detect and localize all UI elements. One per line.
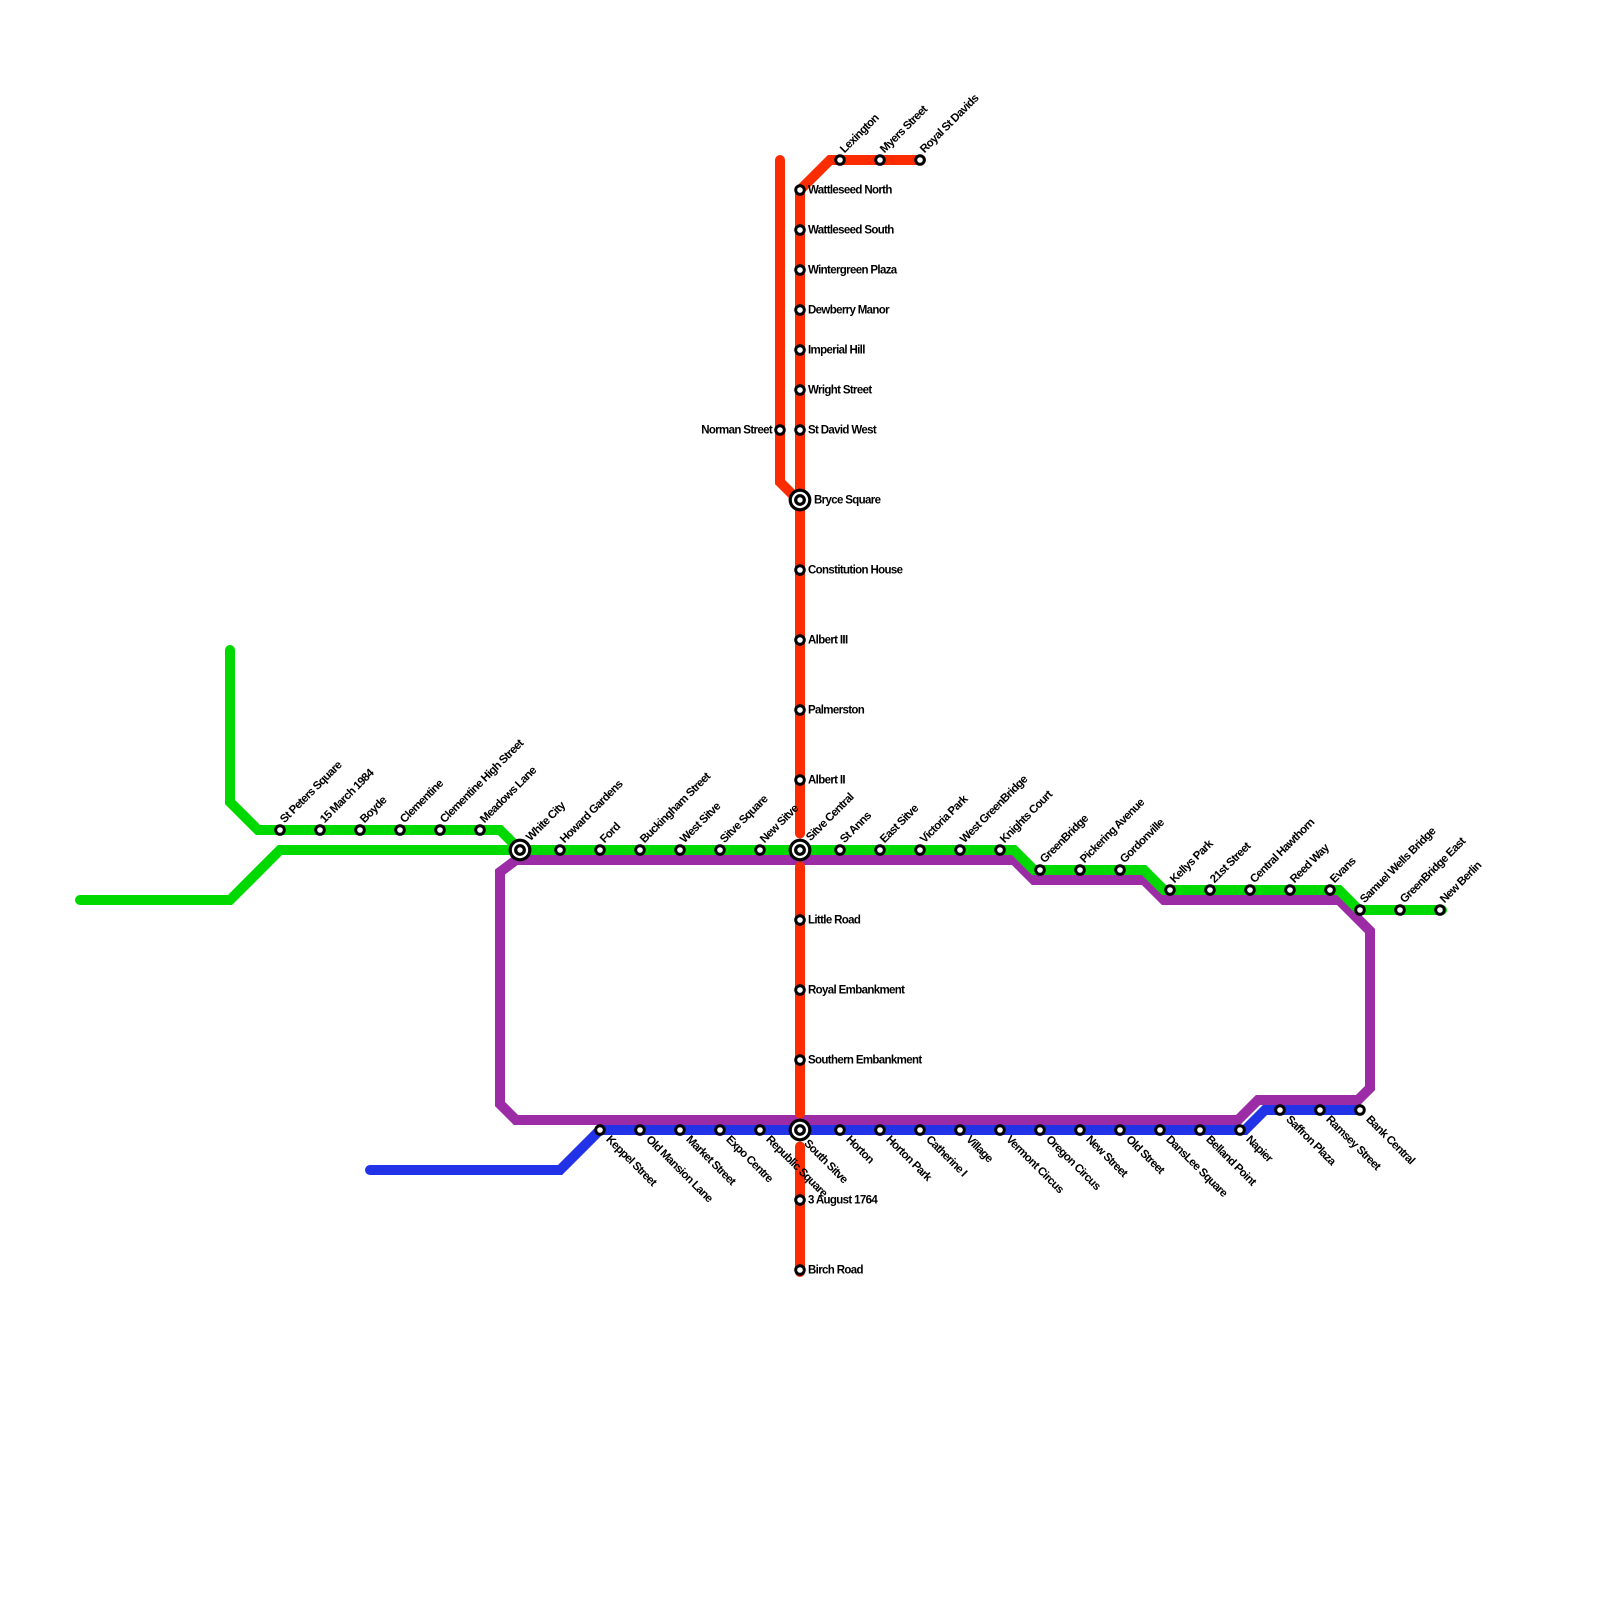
station Dewberry Manor: [794, 304, 890, 316]
station South Sitve: [789, 1119, 850, 1186]
station Market Street: [674, 1124, 738, 1188]
station Imperial Hill: [794, 344, 865, 356]
station Gordonville: [1114, 817, 1167, 876]
svg-text:Wattleseed North: Wattleseed North: [808, 185, 892, 197]
station New Berlin: [1434, 859, 1484, 915]
station New Sitve: [754, 803, 801, 856]
blue line: [370, 1110, 1360, 1170]
station Old Mansion Lane: [634, 1124, 714, 1205]
svg-text:Albert III: Albert III: [808, 635, 848, 647]
red line: main trunk south segment: [795, 1147, 805, 1273]
station Constitution House: [794, 564, 902, 576]
svg-text:Wright Street: Wright Street: [808, 385, 872, 397]
station Napier: [1234, 1124, 1275, 1165]
station Meadows Lane: [474, 765, 539, 836]
station 21st Street: [1204, 840, 1253, 896]
station GreenBridge East: [1394, 835, 1468, 916]
red line: main trunk middle segment: [795, 867, 805, 1114]
svg-text:Palmerston: Palmerston: [808, 705, 865, 717]
station West Sitve: [674, 801, 723, 856]
svg-text:Little Road: Little Road: [808, 915, 861, 927]
svg-text:Imperial Hill: Imperial Hill: [808, 345, 865, 357]
station Bank Central: [1354, 1104, 1417, 1167]
station Old Street: [1114, 1124, 1166, 1177]
station Samuel Wells Bridge: [1354, 825, 1438, 915]
purple circle line loop: [500, 860, 1370, 1120]
svg-text:Southern Embankment: Southern Embankment: [808, 1055, 922, 1067]
svg-text:St David West: St David West: [808, 425, 877, 437]
station Vermont Circus: [994, 1124, 1065, 1196]
station West GreenBridge: [954, 774, 1030, 856]
station Wattleseed South: [794, 224, 894, 236]
station Myers Street: [874, 103, 930, 165]
red line: main trunk north segment: [800, 160, 921, 834]
station 3 August 1764: [794, 1194, 878, 1206]
station Central Hawthorn: [1244, 816, 1317, 895]
station Wattleseed North: [794, 184, 892, 196]
station Knights Court: [994, 788, 1055, 855]
station Kellys Park: [1164, 837, 1216, 895]
red line: left strand (Norman Street branch): [780, 160, 797, 499]
station Royal Embankment: [794, 984, 905, 996]
station Clementine High Street: [434, 737, 526, 836]
station Expo Centre: [714, 1124, 775, 1185]
station Wright Street: [794, 384, 872, 396]
station Wintergreen Plaza: [794, 264, 898, 276]
station Boyde: [354, 794, 389, 835]
station 15 March 1984: [314, 767, 377, 836]
svg-text:Norman Street: Norman Street: [701, 425, 773, 437]
station Norman Street: [701, 424, 786, 436]
station DansLee Square: [1154, 1124, 1229, 1199]
station Royal St Davids: [914, 92, 981, 165]
svg-text:Albert II: Albert II: [808, 775, 845, 787]
station Albert II: [794, 774, 845, 786]
station Palmerston: [794, 704, 865, 716]
station Horton Park: [874, 1124, 934, 1184]
svg-text:Wattleseed South: Wattleseed South: [808, 225, 894, 237]
station New Street: [1074, 1124, 1130, 1180]
station Ramsey Street: [1314, 1104, 1383, 1173]
svg-text:Constitution House: Constitution House: [808, 565, 903, 577]
station Village: [954, 1124, 995, 1165]
station Lexington: [834, 112, 882, 166]
station Birch Road: [794, 1264, 863, 1276]
station Bryce Square: [789, 489, 881, 512]
station Sitve Square: [714, 793, 770, 856]
station Horton: [834, 1124, 876, 1166]
station St Peters Square: [274, 759, 344, 836]
station Little Road: [794, 914, 861, 926]
station GreenBridge: [1034, 813, 1091, 876]
station Pickering Avenue: [1074, 797, 1147, 876]
green line: north-west branch: [230, 650, 520, 850]
station Clementine: [394, 778, 446, 836]
green line: main: [80, 850, 1442, 910]
station Belland Point: [1194, 1124, 1258, 1188]
station St Anns: [834, 810, 874, 856]
station Oregon Circus: [1034, 1124, 1102, 1193]
station Reed Way: [1284, 841, 1332, 895]
station St David West: [794, 424, 877, 436]
station East Sitve: [874, 803, 921, 856]
station Catherine I: [914, 1124, 969, 1179]
svg-text:Birch Road: Birch Road: [808, 1265, 863, 1277]
svg-text:Dewberry Manor: Dewberry Manor: [808, 305, 890, 317]
station Victoria Park: [914, 793, 971, 856]
station Keppel Street: [594, 1124, 659, 1189]
station Republic Square: [754, 1124, 829, 1199]
station Howard Gardens: [554, 778, 625, 855]
station White City: [509, 799, 569, 861]
svg-text:Wintergreen Plaza: Wintergreen Plaza: [808, 265, 898, 277]
station Saffron Plaza: [1274, 1104, 1338, 1168]
svg-text:Bryce Square: Bryce Square: [814, 495, 881, 507]
station Albert III: [794, 634, 848, 646]
station Evans: [1324, 855, 1358, 895]
station Ford: [594, 820, 623, 855]
station Sitve Central: [789, 791, 857, 861]
svg-text:Royal Embankment: Royal Embankment: [808, 985, 905, 997]
station Buckingham Street: [634, 770, 713, 855]
station Southern Embankment: [794, 1054, 922, 1066]
